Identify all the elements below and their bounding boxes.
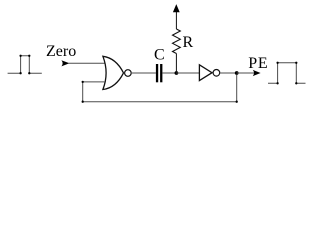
feedback wire corner dots: [82, 81, 238, 103]
wire node to inverter: [176, 72, 199, 74]
PE output arrowhead: [253, 70, 261, 76]
resistor R bottom lead: [175, 54, 177, 73]
input pulse corner dots: [19, 55, 30, 75]
NOR gate output bubble: [125, 70, 132, 77]
output pulse waveform (PE): [268, 63, 306, 84]
resistor R top lead: [175, 12, 177, 30]
svg-text:C: C: [154, 47, 165, 64]
feedback wire (output node down, left, up to NOR bottom input): [83, 75, 237, 102]
wire inverter to output node: [220, 72, 237, 74]
wire Zero to NOR top input: [68, 62, 104, 64]
wire node to PE arrow: [237, 72, 254, 74]
input pulse waveform (Zero): [8, 56, 42, 73]
wire capacitor to node: [162, 72, 176, 74]
capacitor C plates: [156, 64, 158, 82]
svg-text:PE: PE: [248, 55, 268, 72]
NOR gate U1 body: [103, 56, 124, 89]
junction node dot (C/R/inverter): [175, 71, 179, 75]
inverter output bubble: [213, 70, 220, 77]
svg-text:Zero: Zero: [46, 43, 76, 60]
power supply arrow: [173, 4, 180, 12]
svg-text:R: R: [183, 34, 194, 51]
inverter U2 triangle: [199, 65, 212, 81]
Zero input arrowhead: [61, 60, 69, 66]
wire NOR output to capacitor: [131, 72, 156, 74]
output node dot: [235, 71, 239, 75]
resistor R zigzag: [173, 29, 181, 54]
output pulse corner dots: [276, 62, 297, 85]
